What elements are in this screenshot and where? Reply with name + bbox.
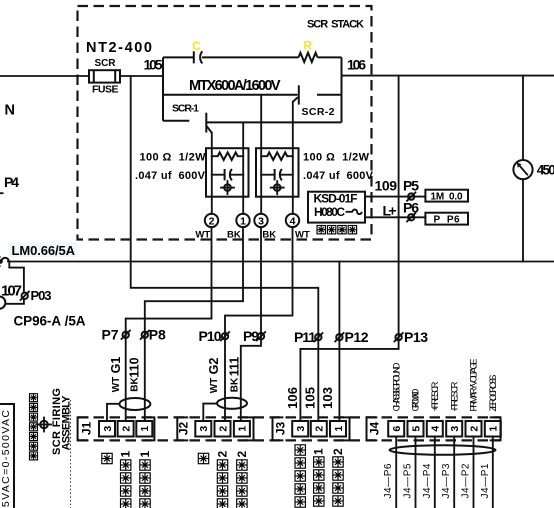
svg-text:SCR-1: SCR-1 (172, 103, 199, 115)
wire circle4 to P10 (225, 227, 293, 421)
svg-text:P5: P5 (403, 178, 419, 194)
svg-text:4: 4 (430, 426, 442, 432)
wire main lower rail (8, 261, 554, 263)
wire rail to P12 (338, 262, 340, 422)
svg-text:P11: P11 (294, 329, 316, 345)
svg-text:G1: G1 (109, 357, 123, 374)
svg-text:J3: J3 (274, 422, 288, 436)
wire J4 pin2 out (473, 437, 475, 508)
svg-text:KSD-01F: KSD-01F (314, 192, 358, 206)
tag box P P6 (425, 213, 468, 226)
wire circle2 to P7 (126, 227, 212, 421)
RC snubber box 2 (256, 148, 299, 197)
label SCR cathode 2 chinese (235, 451, 249, 508)
svg-text:3: 3 (102, 426, 114, 432)
svg-text:BK: BK (262, 229, 276, 240)
connector J1 pin 1 (136, 421, 152, 437)
label ground chinese J2 (198, 453, 208, 463)
svg-text:1: 1 (333, 426, 345, 432)
pin 1 terminal circle (227, 214, 250, 241)
svg-text:107: 107 (1, 283, 22, 300)
SCR stack enclosure (dashed) (78, 6, 372, 240)
resistor R (snubber res, yellow label) (299, 41, 318, 63)
svg-text:LM0.66/5A: LM0.66/5A (12, 243, 76, 258)
connector J3 pin 1 (330, 421, 346, 437)
svg-text:110: 110 (128, 357, 142, 377)
terminal P03 (21, 288, 52, 303)
wire shield to J1 pin3 (107, 404, 119, 421)
connector J3 pin 2 (311, 421, 327, 437)
terminal P5 (403, 178, 419, 201)
svg-text:BK: BK (130, 377, 141, 392)
connector J4 pin 4 (427, 421, 443, 437)
label mains input 1 chinese (312, 448, 326, 506)
svg-text:WT: WT (111, 377, 122, 393)
svg-text:N: N (5, 103, 15, 119)
terminal P9 (243, 328, 265, 344)
connector J4 pin 1 (485, 421, 501, 437)
svg-text:1: 1 (237, 426, 249, 432)
wire 106 rail (342, 75, 554, 77)
svg-text:106: 106 (347, 57, 366, 73)
label ground chinese J1 (102, 453, 112, 463)
svg-text:5: 5 (410, 426, 422, 432)
svg-text:PRIMARY VOLTAGE: PRIMARY VOLTAGE (469, 359, 480, 412)
terminal P10 (199, 328, 230, 344)
connector J3 end bracket (339, 417, 350, 440)
transistor SCR-1 (172, 103, 342, 133)
svg-text:-5VAC=0-500VAC: -5VAC=0-500VAC (0, 410, 12, 508)
svg-text:.047 uf 600V: .047 uf 600V (303, 170, 374, 182)
svg-text:BK: BK (230, 377, 241, 392)
svg-text:+ FIRE SCR: + FIRE SCR (430, 381, 441, 411)
current transformer LM0.66/5A (0, 243, 78, 267)
board edge dotted (70, 400, 72, 508)
svg-text:1: 1 (488, 426, 500, 432)
connector band top dashed rail (78, 416, 501, 418)
pin 3 terminal circle (254, 214, 276, 241)
connector J1 bracket (78, 417, 89, 440)
terminal P11 (294, 329, 323, 345)
svg-text:1: 1 (312, 448, 326, 455)
svg-text:L+: L+ (383, 203, 397, 219)
svg-text:P10: P10 (199, 328, 222, 344)
svg-text:111: 111 (228, 357, 242, 377)
svg-text:WT: WT (295, 229, 310, 240)
svg-text:3: 3 (198, 426, 210, 432)
svg-text:NT2-400: NT2-400 (86, 40, 152, 56)
wire SCR-2 gate drop (292, 102, 294, 214)
svg-text:WT: WT (209, 378, 220, 394)
svg-text:100 Ω 1/2W: 100 Ω 1/2W (140, 152, 207, 164)
svg-text:J4—P3: J4—P3 (441, 463, 452, 498)
svg-text:3: 3 (258, 215, 264, 227)
terminal P6 (403, 200, 419, 222)
svg-text:CHASSIS GROUND: CHASSIS GROUND (391, 362, 402, 411)
meter 450 (513, 160, 554, 179)
svg-text:100 Ω 1/2W: 100 Ω 1/2W (303, 152, 370, 164)
cable ellipse J4 (390, 445, 496, 455)
current transformer CP96 coil (0, 296, 5, 308)
svg-text:P8: P8 (149, 327, 166, 343)
svg-text:109: 109 (375, 178, 398, 194)
connector J2 bracket (177, 417, 188, 440)
wire meter drop from 106 rail (522, 76, 524, 160)
svg-text:2: 2 (468, 426, 480, 432)
svg-text:CP96-A /5A: CP96-A /5A (14, 314, 86, 329)
svg-text:105: 105 (144, 57, 163, 73)
wire L+ to P6 (365, 216, 425, 218)
label mains input 2 chinese (331, 448, 345, 506)
signal box 0-5VAC (0, 404, 14, 508)
wire P03 to CT2 (6, 299, 24, 304)
svg-text:2: 2 (120, 426, 132, 432)
svg-text:J4—P1: J4—P1 (480, 463, 491, 498)
wire SCR-1 cathode drop (242, 122, 244, 213)
svg-text:103: 103 (320, 387, 335, 409)
wire shield to J2 pin3 (203, 404, 217, 421)
connector J3 bracket (273, 417, 284, 440)
wire 109 to P5 (365, 196, 425, 198)
terminal P7 (102, 327, 130, 343)
connector J4 pin 2 (466, 421, 482, 437)
svg-text:J1: J1 (80, 422, 94, 436)
svg-text:1: 1 (139, 426, 151, 432)
twisted pair ellipse J1 (119, 398, 150, 410)
wire SCR-1 gate drop (211, 133, 213, 214)
capacitor C (snubber cap, yellow label) (192, 41, 202, 63)
wire J4 pin1 out (492, 437, 494, 508)
wire circle1 to P8 (145, 227, 243, 421)
wire J4 pin6 out (395, 437, 397, 508)
thermal pad symbol snubber2 (271, 181, 284, 194)
label primary voltage input chinese (295, 445, 305, 507)
svg-text:6: 6 (391, 426, 403, 432)
twisted pair ellipse J2 (217, 398, 247, 409)
svg-text:WT: WT (195, 229, 210, 240)
label SCR firing part chinese (30, 394, 38, 460)
connector J4 bracket (367, 417, 378, 440)
resistor snubber1 100ohm (212, 152, 243, 160)
svg-text:SCR STACK: SCR STACK (307, 19, 364, 31)
svg-text:106: 106 (285, 387, 300, 409)
svg-text:SCR-2: SCR-2 (302, 106, 335, 118)
svg-text:ZERO CROSS: ZERO CROSS (488, 375, 499, 412)
pin 4 terminal circle (286, 214, 310, 241)
svg-text:P7: P7 (102, 327, 119, 343)
svg-text:J4—P6: J4—P6 (383, 463, 394, 498)
svg-text:C: C (192, 41, 200, 53)
wire 106 rail to P13 to J3 (300, 76, 398, 421)
thermostat KSD-01F box (308, 192, 365, 223)
terminal P12 (335, 329, 369, 345)
svg-text:1: 1 (240, 215, 246, 227)
svg-text:BK: BK (227, 229, 241, 240)
svg-text:J4—P5: J4—P5 (403, 463, 414, 498)
svg-text:J4—P4: J4—P4 (422, 463, 433, 498)
wire J4 pin4 out (434, 437, 436, 508)
thermal pad symbol snubber1 (221, 181, 234, 194)
pin 2 terminal circle (195, 214, 218, 241)
svg-text:1: 1 (138, 451, 152, 458)
wire CT tap 107 (9, 262, 24, 293)
connector J2 pin 2 (215, 421, 231, 437)
svg-text:1M 0.0: 1M 0.0 (431, 192, 463, 203)
wire fuse to module (120, 75, 163, 77)
wire N feed (0, 75, 89, 77)
wire J4 pin3 out (453, 437, 455, 508)
capacitor snubber2 .047uf (261, 169, 293, 180)
svg-text:H080C: H080C (314, 205, 345, 219)
connector J2 pin 3 (195, 421, 211, 437)
svg-text:.047 uf 600V: .047 uf 600V (135, 170, 206, 182)
fuse SCR FUSE (NT2-400) (86, 40, 152, 96)
resistor snubber2 100ohm (261, 152, 293, 160)
svg-text:J4: J4 (368, 422, 382, 436)
capacitor snubber1 .047uf (212, 169, 243, 180)
datum symbol (37, 418, 51, 432)
connector J4 pin 5 (408, 421, 424, 437)
svg-text:4: 4 (290, 215, 296, 227)
connector J4 end bracket (490, 417, 501, 440)
svg-text:3: 3 (449, 426, 461, 432)
wire meter to main lower rail (522, 179, 524, 261)
connector J1 pin 3 (99, 421, 115, 437)
svg-text:FUSE: FUSE (92, 84, 119, 96)
connector J1 pin 2 (118, 421, 134, 437)
svg-text:MTX600A/1600V: MTX600A/1600V (189, 78, 281, 94)
svg-text:P P6: P P6 (434, 215, 460, 226)
svg-text:3: 3 (295, 426, 307, 432)
svg-text:2: 2 (314, 426, 326, 432)
svg-text:1: 1 (119, 451, 133, 458)
svg-text:2: 2 (209, 215, 215, 227)
label thermostat chinese (317, 226, 357, 234)
svg-text:R: R (304, 41, 313, 53)
tag box 1M 0.0 (425, 190, 468, 203)
label SCR cathode 1 chinese (138, 451, 152, 508)
terminal stub at edge (0, 192, 3, 194)
svg-text:P13: P13 (404, 329, 428, 345)
svg-text:2: 2 (331, 448, 345, 455)
svg-text:2: 2 (215, 451, 229, 458)
op module MTX600A/1600V box (163, 57, 342, 122)
connector J1 end bracket (144, 417, 155, 440)
connector J2 end bracket (243, 417, 254, 440)
svg-text:GROUND: GROUND (411, 388, 422, 411)
wire circle3 to P9 to J2 (241, 227, 261, 421)
svg-text:P6: P6 (403, 200, 419, 216)
label SCR gate 1 chinese (119, 451, 133, 508)
label SCR gate 2 chinese (215, 451, 229, 508)
svg-text:P4: P4 (4, 174, 19, 190)
connector J4 pin 3 (446, 421, 462, 437)
svg-text:- FIRE SCR: - FIRE SCR (449, 381, 460, 411)
wire J4 pin5 out (415, 437, 417, 508)
svg-text:G2: G2 (207, 358, 221, 375)
svg-text:2: 2 (235, 451, 249, 458)
connector J3 pin 3 (292, 421, 308, 437)
svg-text:P03: P03 (31, 288, 52, 303)
terminal P13 (394, 329, 428, 345)
svg-text:J2: J2 (177, 422, 191, 436)
connector band bottom dashed rail (78, 439, 501, 441)
wire 105 tap to P11 (131, 76, 319, 421)
svg-text:P12: P12 (345, 329, 369, 345)
svg-text:105: 105 (303, 387, 318, 409)
transistor SCR-2 (293, 85, 335, 118)
terminal P8 (141, 327, 166, 343)
svg-text:450: 450 (537, 163, 554, 178)
svg-text:J4—P2: J4—P2 (461, 463, 472, 498)
wire center tap drop (260, 95, 262, 214)
RC snubber box 1 (206, 148, 249, 197)
svg-text:SCR: SCR (95, 58, 117, 69)
connector J2 pin 1 (234, 421, 250, 437)
connector J4 pin 6 (388, 421, 404, 437)
svg-text:2: 2 (217, 426, 229, 432)
